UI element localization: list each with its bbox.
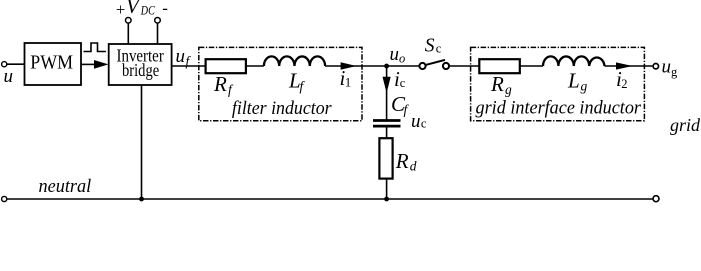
svg-text:R: R — [395, 149, 409, 173]
svg-text:g: g — [505, 82, 512, 97]
label Sc — [425, 36, 442, 57]
svg-text:1: 1 — [345, 76, 351, 90]
svg-text:V: V — [126, 0, 141, 18]
label i2 — [616, 67, 628, 91]
wire PWM to inverter with arrow — [81, 60, 108, 69]
output terminal ug — [653, 63, 658, 68]
wire Lf to node uo — [325, 65, 387, 67]
svg-text:DC: DC — [140, 3, 155, 17]
filter inductor dashed enclosure — [199, 47, 362, 120]
svg-text:u: u — [4, 66, 14, 87]
label Rg — [490, 72, 512, 97]
PWM block — [25, 43, 82, 85]
svg-text:2: 2 — [621, 77, 627, 91]
wire inverter to neutral — [141, 85, 143, 199]
wire +VDC to inverter — [127, 23, 129, 44]
junction dot Rd/neutral — [384, 197, 389, 202]
label Lf — [288, 68, 306, 93]
svg-text:R: R — [213, 72, 227, 96]
wire node uo to switch — [387, 65, 419, 67]
wire Lg to output terminal — [605, 65, 653, 67]
wire Rg to Lg — [520, 65, 543, 67]
svg-text:c: c — [421, 116, 427, 130]
switch Sc — [419, 60, 449, 69]
wire Rf to Lf — [246, 65, 264, 67]
svg-text:grid interface inductor: grid interface inductor — [476, 98, 642, 119]
svg-text:u: u — [390, 44, 400, 65]
label uc — [411, 111, 427, 132]
pulse waveform symbol — [84, 43, 107, 52]
inverter bridge block U1 — [109, 44, 172, 85]
DC supply - terminal — [155, 18, 161, 24]
node label uf — [176, 46, 192, 69]
node uo junction — [384, 64, 389, 69]
svg-text:filter inductor: filter inductor — [232, 98, 332, 119]
svg-text:neutral: neutral — [39, 176, 92, 197]
svg-text:o: o — [399, 52, 405, 66]
resistor Rg — [479, 59, 520, 73]
inductor Lg — [543, 56, 605, 66]
svg-text:u: u — [411, 111, 421, 132]
svg-text:d: d — [410, 159, 417, 174]
svg-text:u: u — [662, 57, 672, 78]
svg-text:u: u — [176, 46, 186, 67]
DC supply + terminal — [126, 18, 132, 24]
svg-text:c: c — [400, 76, 406, 90]
capacitor Cf plates — [373, 121, 401, 127]
svg-text:bridge: bridge — [122, 60, 159, 80]
svg-text:PWM: PWM — [30, 51, 73, 73]
svg-text:-: - — [162, 0, 168, 18]
label Rf — [213, 72, 234, 97]
wire Cf to Rd — [386, 126, 388, 138]
wire node uo down to Cf — [386, 66, 388, 121]
input terminal u — [2, 62, 7, 67]
current arrow ic — [383, 77, 391, 93]
wire input terminal to PWM — [7, 63, 25, 65]
svg-text:grid: grid — [670, 115, 701, 135]
svg-text:c: c — [436, 41, 442, 55]
wire Rd to neutral — [386, 179, 388, 199]
wire -VDC to inverter — [157, 23, 159, 44]
neutral right terminal — [653, 196, 659, 202]
junction dot inverter/neutral — [139, 197, 144, 202]
grid interface inductor dashed enclosure — [471, 47, 645, 120]
svg-text:S: S — [425, 36, 435, 57]
resistor Rf — [206, 59, 246, 73]
neutral left terminal — [2, 196, 7, 201]
wire switch to Rg — [450, 65, 480, 67]
label + VDC - — [116, 0, 169, 19]
svg-text:g: g — [581, 78, 588, 93]
label Rd — [395, 149, 417, 174]
label Cf — [391, 92, 410, 117]
label Lg — [567, 68, 588, 93]
current arrow i1 — [341, 62, 357, 70]
wire inverter to Rf — [172, 65, 206, 67]
svg-text:g: g — [671, 65, 678, 79]
label ic — [394, 67, 406, 91]
neutral wire — [7, 198, 653, 200]
node label uo — [390, 44, 406, 66]
node label ug — [662, 57, 679, 80]
label i1 — [340, 66, 352, 90]
svg-text:+: + — [116, 0, 126, 19]
current arrow i2 — [616, 62, 633, 69]
resistor Rd — [379, 138, 392, 178]
inductor Lf — [264, 56, 325, 66]
svg-text:L: L — [567, 68, 580, 92]
svg-text:R: R — [490, 72, 504, 96]
